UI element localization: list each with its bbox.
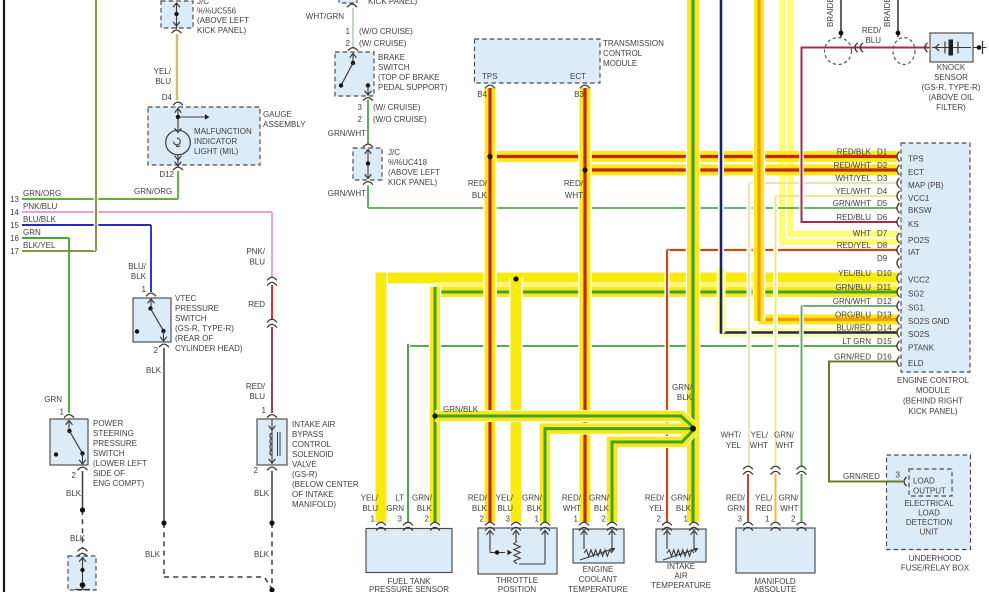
svg-text:BLK: BLK	[146, 366, 162, 375]
svg-text:(W/ CRUISE): (W/ CRUISE)	[359, 39, 407, 48]
svg-text:BLK: BLK	[472, 191, 488, 200]
svg-text:2: 2	[791, 515, 796, 524]
svg-text:GRN/: GRN/	[412, 494, 433, 503]
label wire GRN/ORG pin 13	[23, 189, 61, 198]
svg-text:LT: LT	[395, 494, 404, 503]
svg-text:WHT: WHT	[563, 504, 581, 513]
svg-text:D11: D11	[877, 283, 892, 292]
ELD load output inner box	[909, 469, 952, 496]
svg-text:BLK: BLK	[254, 489, 270, 498]
svg-text:(LOWER LEFT: (LOWER LEFT	[93, 459, 147, 468]
svg-text:INTAKE: INTAKE	[667, 562, 695, 571]
svg-text:INTAKE AIR: INTAKE AIR	[292, 420, 336, 429]
svg-text:GRN/WHT: GRN/WHT	[328, 129, 366, 138]
svg-text:MODULE: MODULE	[603, 59, 637, 68]
pin 1 bypass solenoid	[262, 406, 267, 415]
pin 1 power steering switch	[60, 408, 65, 417]
power steering pressure switch box	[50, 419, 88, 465]
wire BLK from power steering switch pin 2	[82, 471, 84, 548]
svg-text:WHT/GRN: WHT/GRN	[306, 12, 344, 21]
ground junction box G101	[68, 556, 96, 590]
label wire BLU/BLK pin 15	[23, 215, 57, 224]
engine coolant temp sensor internals (thermistor)	[580, 531, 616, 561]
svg-text:LIGHT (MIL): LIGHT (MIL)	[194, 147, 239, 156]
wire GRN/BLK junction fan (fuel-tank, throttle and coolant legs to main junction)	[435, 416, 693, 522]
svg-text:(GS-R, TYPE-R): (GS-R, TYPE-R)	[922, 83, 981, 92]
svg-text:RED/WHT: RED/WHT	[834, 161, 871, 170]
svg-text:1: 1	[60, 408, 65, 417]
wire WHT/YEL horizontal to ECM D3	[749, 182, 897, 184]
junction dot BLK bypass	[269, 520, 274, 525]
VTEC pressure switch internals	[135, 293, 169, 347]
svg-text:ENGINE CONTROL: ENGINE CONTROL	[897, 376, 970, 385]
svg-text:(GS-R, TYPE-R): (GS-R, TYPE-R)	[175, 324, 234, 333]
engine coolant temperature sensor box	[573, 529, 624, 563]
wire RED segment	[271, 285, 273, 319]
svg-text:THROTTLE: THROTTLE	[496, 576, 538, 585]
ECM pin D13 labels	[835, 311, 950, 327]
svg-text:BLK: BLK	[677, 393, 693, 402]
transmission control module box	[475, 39, 601, 83]
svg-text:YEL/: YEL/	[755, 494, 773, 503]
fuel tank pressure sensor box	[366, 529, 452, 573]
svg-text:17: 17	[10, 247, 19, 256]
svg-text:BLK: BLK	[66, 489, 82, 498]
svg-text:ASSEMBLY: ASSEMBLY	[263, 120, 306, 129]
svg-text:PRESSURE: PRESSURE	[175, 304, 219, 313]
svg-text:3: 3	[506, 515, 511, 524]
svg-text:YEL: YEL	[726, 441, 742, 450]
svg-text:BLK: BLK	[472, 504, 488, 513]
svg-text:TPS: TPS	[908, 155, 924, 164]
svg-text:(ABOVE LEFT: (ABOVE LEFT	[197, 16, 249, 25]
braided shield 2	[893, 0, 915, 65]
svg-text:(TOP OF BRAKE: (TOP OF BRAKE	[378, 73, 440, 82]
wire RED/YEL horizontal to ECM D8	[667, 249, 897, 251]
svg-text:YEL/: YEL/	[751, 431, 769, 440]
label wire RED/BLU knock	[862, 26, 882, 45]
braided shield 1	[825, 0, 852, 65]
svg-text:GRN: GRN	[386, 504, 404, 513]
label wire BLK below VTEC	[146, 366, 162, 375]
label wire GRN/WHT above J/C	[328, 129, 366, 138]
svg-text:(W/O CRUISE): (W/O CRUISE)	[373, 115, 427, 124]
svg-text:TPS: TPS	[482, 72, 498, 81]
brake switch box	[335, 52, 374, 96]
junction dot YEL/BLU at D10	[513, 276, 518, 281]
svg-text:GRN/: GRN/	[672, 383, 693, 392]
wire LT GRN horizontal to ECM D15 PTANK	[408, 345, 897, 347]
svg-text:RED/: RED/	[468, 494, 488, 503]
ELD pin 3 connector	[904, 477, 907, 486]
svg-text:GRN/WHT: GRN/WHT	[833, 297, 871, 306]
svg-text:BLK: BLK	[594, 504, 610, 513]
wire RED/WHT bus from TCM B3 down to coolant sensor pin 1 (highlighted)	[578, 88, 592, 522]
svg-text:GRN: GRN	[727, 504, 745, 513]
connector pins at intake air temp sensor	[662, 522, 699, 530]
svg-text:D12: D12	[877, 297, 892, 306]
svg-text:BLU: BLU	[362, 504, 378, 513]
label wire GRN/WHT pin 2 at MAP sensor	[779, 494, 800, 524]
svg-text:BKSW: BKSW	[908, 206, 932, 215]
intake air temperature sensor box	[656, 529, 706, 562]
svg-text:CYLINDER HEAD): CYLINDER HEAD)	[175, 344, 243, 353]
svg-text:WHT: WHT	[780, 504, 798, 513]
gauge assembly box	[148, 107, 260, 165]
power steering pressure switch internals	[54, 415, 88, 471]
pin B3 TCM	[574, 90, 584, 99]
junction dot BLK bottom	[269, 587, 274, 592]
label wire RED/BLK bus	[468, 179, 488, 200]
svg-text:SWITCH: SWITCH	[93, 449, 125, 458]
pin numbers 13-17	[10, 195, 19, 256]
label wire BLK power steering	[66, 489, 86, 543]
connector on PNK/BLU-RED wire	[267, 277, 277, 285]
wire ORG/BLU vertical from top edge to ECM D13 (highlighted)	[753, 0, 766, 321]
label gauge assembly	[263, 110, 306, 129]
label wire PNK/BLU pin 14	[23, 202, 57, 211]
throttle position sensor box	[478, 528, 557, 574]
label wire GRN/BLK pin 2 at coolant sensor	[589, 494, 610, 524]
svg-text:ENGINE: ENGINE	[583, 565, 614, 574]
svg-text:2: 2	[254, 466, 259, 475]
svg-text:SWITCH: SWITCH	[378, 63, 410, 72]
svg-text:OF INTAKE: OF INTAKE	[292, 490, 334, 499]
svg-text:GRN/: GRN/	[671, 494, 692, 503]
svg-text:WHT/YEL: WHT/YEL	[835, 174, 871, 183]
svg-text:GRN/: GRN/	[589, 494, 610, 503]
svg-text:SG2: SG2	[908, 290, 925, 299]
label wire RED/WHT pin 1 at coolant sensor	[562, 494, 582, 524]
throttle position sensor internals	[487, 531, 549, 565]
wire RED/BLK horizontal to ECM D1 (highlighted)	[490, 151, 897, 162]
svg-text:POWER: POWER	[93, 419, 123, 428]
label node GRN/BLK left junction	[443, 405, 479, 414]
svg-text:D4: D4	[877, 187, 888, 196]
junction dot RED/BLK at D1	[487, 154, 492, 159]
junction dot BLK VTEC	[161, 520, 166, 525]
svg-text:ELD: ELD	[908, 359, 924, 368]
label wire LT GRN pin 3 at fuel tank sensor	[386, 494, 404, 524]
wire GRN/WHT from J/C UC418 down to D5 run	[367, 186, 369, 209]
svg-text:GRN: GRN	[23, 228, 41, 237]
label wire GRN/BLK pin 1 at intake air sensor	[671, 494, 692, 524]
label engine coolant temperature sensor	[568, 565, 628, 594]
wire GRN pin 16 horizontal	[22, 237, 69, 239]
svg-text:D13: D13	[877, 311, 892, 320]
svg-text:1: 1	[765, 515, 770, 524]
TCM pin names	[482, 72, 586, 81]
intake air bypass solenoid internals (coil)	[267, 415, 280, 471]
ECM pin D1 labels	[837, 148, 924, 164]
label VTEC pressure switch	[175, 294, 243, 353]
label underhood fuse/relay box	[901, 554, 970, 573]
wire RED/BLU segment to intake air bypass valve pin 1	[271, 327, 273, 413]
svg-text:GAUGE: GAUGE	[263, 110, 292, 119]
wire RED/GRN to MAP pin 3	[747, 474, 749, 522]
svg-text:CONTROL: CONTROL	[603, 49, 643, 58]
ECM pin D14 labels	[836, 324, 929, 340]
intake air bypass control solenoid valve box	[257, 419, 287, 465]
junction dot BLK power steering	[80, 507, 85, 512]
svg-text:SOLENOID: SOLENOID	[292, 450, 334, 459]
wire YEL/BLU horizontal to ECM D10 VCC2 (highlighted)	[381, 273, 897, 284]
label throttle position sensor	[496, 576, 538, 594]
wire GRN/ORG vertical from gauge D12	[177, 171, 179, 199]
label node GRN/BLK main junction	[672, 383, 693, 402]
ECM pin D4 labels	[835, 187, 929, 203]
svg-text:ECT: ECT	[908, 168, 924, 177]
svg-text:LT GRN: LT GRN	[842, 337, 871, 346]
pin B4 TCM	[477, 90, 487, 99]
J/C UC556 box	[161, 1, 193, 28]
svg-text:TRANSMISSION: TRANSMISSION	[603, 39, 664, 48]
svg-text:GRN/BLK: GRN/BLK	[443, 405, 479, 414]
svg-text:KICK PANEL): KICK PANEL)	[908, 407, 958, 416]
ECM pin D16 labels	[834, 353, 924, 369]
label braided shield 2	[883, 0, 892, 27]
svg-text:13: 13	[10, 195, 19, 204]
svg-text:D10: D10	[877, 269, 892, 278]
ECM pin D6 labels	[836, 213, 918, 229]
svg-text:B4: B4	[477, 90, 487, 99]
label wire RED/BLU to solenoid	[246, 382, 266, 401]
svg-text:SIDE OF: SIDE OF	[93, 469, 125, 478]
ECM pin D11 labels	[835, 283, 924, 299]
label wire YEL/BLU to gauge	[154, 67, 172, 86]
svg-text:BLU: BLU	[249, 392, 265, 401]
brake switch pin options top	[346, 27, 414, 48]
svg-text:1: 1	[684, 515, 689, 524]
svg-text:MODULE: MODULE	[916, 386, 950, 395]
svg-text:AIR: AIR	[674, 572, 688, 581]
ECM pin D7 labels	[853, 229, 930, 245]
svg-text:GRN/ORG: GRN/ORG	[23, 189, 61, 198]
svg-text:GRN/: GRN/	[779, 494, 800, 503]
svg-text:ELECTRICAL: ELECTRICAL	[904, 499, 954, 508]
svg-text:WHT: WHT	[776, 441, 794, 450]
svg-text:SG1: SG1	[908, 304, 925, 313]
J/C top cut-off connector	[347, 4, 357, 7]
svg-text:KNOCK: KNOCK	[937, 63, 966, 72]
svg-text:J/C: J/C	[197, 0, 209, 6]
svg-text:3: 3	[896, 471, 901, 480]
highlight band between D10 and D11 runs	[435, 282, 897, 288]
svg-text:3: 3	[358, 103, 363, 112]
wire GRN/BLK bus from top edge down to intake air temp pin 1 (highlighted)	[686, 0, 701, 522]
svg-text:BLU: BLU	[249, 258, 265, 267]
label transmission control module	[603, 39, 664, 68]
svg-text:TEMPERATURE: TEMPERATURE	[651, 581, 711, 590]
connector pins at throttle sensor	[485, 522, 550, 530]
svg-text:WHT: WHT	[750, 441, 768, 450]
wire GRN/WHT brake switch to J/C UC418	[367, 100, 369, 145]
label wire BLK/YEL pin 17	[23, 241, 56, 250]
ECM pin D2 labels	[834, 161, 924, 177]
svg-text:16: 16	[10, 234, 19, 243]
svg-text:YEL/WHT: YEL/WHT	[835, 187, 871, 196]
svg-text:BLK: BLK	[527, 504, 543, 513]
malfunction indicator light (MIL)	[166, 108, 210, 171]
label braided shield 1	[826, 0, 835, 27]
svg-text:SO2S: SO2S	[908, 330, 929, 339]
wire GRN/BLU-GRN/BLK vertical to fuel tank pressure sensor pin 2 (highlighted)	[429, 287, 442, 522]
svg-text:D12: D12	[159, 170, 174, 179]
svg-text:LOAD: LOAD	[913, 477, 935, 486]
label wire PNK/BLU vertical	[246, 247, 265, 267]
ECM pin D10 labels	[838, 269, 930, 285]
svg-text:D2: D2	[877, 161, 888, 170]
wire BLK from VTEC switch pin 2	[164, 348, 272, 589]
wire YEL/WHT vertical down to MAP sensor	[773, 196, 778, 466]
svg-text:INDICATOR: INDICATOR	[194, 137, 237, 146]
svg-text:GRN/RED: GRN/RED	[843, 472, 880, 481]
svg-text:BLU/BLK: BLU/BLK	[23, 215, 57, 224]
wire GRN/RED from ECM D16 ELD to electrical load detection unit	[829, 362, 903, 482]
label wire BLK bypass	[254, 489, 270, 559]
svg-text:(W/O CRUISE): (W/O CRUISE)	[359, 27, 413, 36]
svg-text:BLU: BLU	[497, 504, 513, 513]
pin 1 VTEC switch	[142, 285, 147, 294]
manifold absolute pressure sensor box	[736, 528, 815, 573]
brake switch internals	[339, 48, 373, 101]
label fuel tank pressure sensor	[369, 577, 449, 594]
svg-text:WHT: WHT	[853, 229, 871, 238]
svg-text:15: 15	[10, 221, 19, 230]
svg-text:MANIFOLD): MANIFOLD)	[292, 500, 336, 509]
wire BLU/RED horizontal to ECM D14 SO2S (highlighted pale)	[721, 328, 897, 337]
label wire RED/BLK pin 2 at throttle sensor	[468, 494, 488, 524]
svg-text:D5: D5	[877, 199, 888, 208]
label wire GRN at power steering	[44, 395, 62, 404]
svg-text:LOAD: LOAD	[918, 509, 940, 518]
svg-text:GRN/: GRN/	[522, 494, 543, 503]
pin 2 bypass solenoid	[254, 466, 259, 475]
svg-text:D9: D9	[877, 254, 888, 263]
svg-text:BLK: BLK	[417, 504, 433, 513]
svg-text:VCC1: VCC1	[908, 194, 930, 203]
svg-text:RED/BLK: RED/BLK	[837, 148, 872, 157]
label wire RED/YEL pin 2 at intake air sensor	[645, 494, 665, 524]
wire GRN vertical to power steering pressure switch pin 1	[68, 238, 70, 413]
label knock sensor	[922, 63, 981, 112]
label power steering pressure switch	[93, 419, 147, 488]
label wire GRN pin 16	[23, 228, 41, 237]
svg-text:UNDERHOOD: UNDERHOOD	[909, 554, 962, 563]
label wire YEL/BLU pin 1 at fuel tank sensor	[361, 494, 379, 524]
label top J/C kick panel	[368, 0, 418, 6]
svg-text:CONTROL: CONTROL	[292, 440, 332, 449]
svg-text:2: 2	[358, 115, 363, 124]
svg-text:RED/: RED/	[726, 494, 746, 503]
svg-text:WHT/: WHT/	[721, 431, 742, 440]
wire WHT/GRN from J/C to brake switch	[352, 8, 354, 49]
svg-text:PRESSURE: PRESSURE	[93, 439, 137, 448]
svg-text:(W/ CRUISE): (W/ CRUISE)	[373, 103, 421, 112]
svg-text:D4: D4	[162, 93, 173, 102]
svg-text:WHT: WHT	[565, 191, 583, 200]
pin D4 gauge assembly	[162, 93, 173, 102]
wire RED/WHT horizontal to ECM D2 (highlighted)	[585, 165, 897, 176]
wire BLU/BLK pin 15 horizontal	[22, 224, 151, 226]
wire BLK/YEL pin 17 horizontal	[22, 250, 96, 252]
wire ORG/BLU horizontal to ECM D13 (highlighted)	[759, 315, 897, 325]
label malfunction indicator light	[194, 127, 252, 156]
label wire YEL/WHT above MAP	[750, 431, 769, 451]
svg-text:BLU/RED: BLU/RED	[836, 324, 871, 333]
junction dot GRN/BLK left	[432, 413, 437, 418]
label wire BLK VTEC lower	[145, 550, 161, 559]
svg-text:2: 2	[346, 39, 351, 48]
svg-text:D8: D8	[877, 241, 888, 250]
ECM pin brackets D1-D16	[897, 152, 900, 367]
J/C UC556 internals	[172, 3, 182, 33]
label wire YEL/BLU pin 3 at throttle sensor	[496, 494, 514, 524]
connector pins at fuel tank sensor	[376, 522, 440, 530]
svg-text:FUSE/RELAY BOX: FUSE/RELAY BOX	[901, 564, 970, 573]
svg-text:(ABOVE LEFT: (ABOVE LEFT	[388, 168, 440, 177]
connector at knock sensor	[925, 43, 928, 52]
svg-text:GRN/ORG: GRN/ORG	[134, 187, 172, 196]
svg-text:BRAKE: BRAKE	[378, 53, 405, 62]
svg-text:VCC2: VCC2	[908, 276, 930, 285]
junction dot RED/WHT at D2	[582, 167, 587, 172]
svg-text:2: 2	[602, 515, 607, 524]
wire BLK from intake air bypass valve pin 2	[271, 471, 273, 592]
connector pins at coolant sensor	[579, 522, 617, 530]
wire YEL/BLU vertical to fuel tank pressure sensor pin 1 (highlighted)	[374, 273, 388, 523]
label wire GRN/WHT above MAP	[774, 431, 795, 451]
svg-text:YEL/: YEL/	[496, 494, 514, 503]
wire BLK/YEL vertical to top edge	[94, 0, 99, 251]
wire PNK/BLU pin 14 horizontal	[22, 211, 272, 213]
svg-text:OUTPUT: OUTPUT	[913, 487, 946, 496]
brake switch pin options bottom	[358, 103, 428, 124]
svg-text:2: 2	[425, 515, 430, 524]
ECM pin D8 labels	[837, 241, 920, 257]
svg-text:RED: RED	[756, 504, 773, 513]
label manifold absolute pressure sensor	[754, 577, 797, 594]
svg-text:GRN/: GRN/	[774, 431, 795, 440]
svg-text:%%UC418: %%UC418	[388, 158, 428, 167]
ECM pin D15 labels	[842, 337, 934, 353]
svg-text:BRAIDED: BRAIDED	[826, 0, 835, 27]
svg-text:RED/: RED/	[645, 494, 665, 503]
connector on RED-RED/BLU wire	[267, 319, 277, 327]
wire WHT/YEL vertical down to MAP sensor	[747, 183, 752, 466]
svg-text:STEERING: STEERING	[93, 429, 134, 438]
svg-text:D6: D6	[877, 213, 888, 222]
svg-text:BLU: BLU	[865, 36, 881, 45]
wire PNK/BLU vertical segment	[271, 212, 273, 277]
pin 2 VTEC switch	[154, 346, 159, 355]
svg-text:TEMPERATURE: TEMPERATURE	[568, 585, 628, 592]
svg-text:1: 1	[574, 515, 579, 524]
svg-text:GRN: GRN	[44, 395, 62, 404]
svg-text:B3: B3	[574, 90, 584, 99]
svg-text:IAT: IAT	[908, 248, 920, 257]
svg-text:2: 2	[72, 471, 77, 480]
connectors on MAP sensor wires	[743, 466, 806, 474]
wire RED/BLU from ECM D6 KS up and over to knock sensor	[802, 48, 931, 223]
svg-text:POSITION: POSITION	[498, 585, 536, 592]
svg-text:PNK/BLU: PNK/BLU	[23, 202, 57, 211]
svg-text:YEL/: YEL/	[361, 494, 379, 503]
svg-text:1: 1	[346, 27, 351, 36]
svg-text:BLK/YEL: BLK/YEL	[23, 241, 56, 250]
wire RED/YEL vertical down to intake air temp pin 2	[665, 250, 670, 522]
svg-text:FILTER): FILTER)	[936, 103, 966, 112]
